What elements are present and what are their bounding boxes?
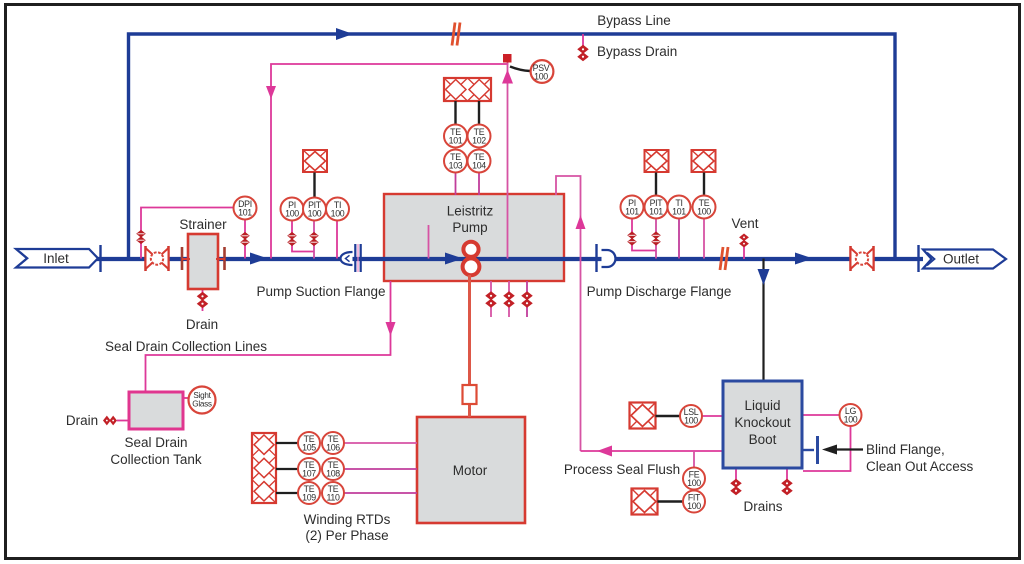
line break symbol discharge [720,247,728,270]
inlet flag [16,249,98,268]
sight glass SG1 [189,387,216,414]
drain symbol strainer [198,293,208,308]
wire PI 100 tap [292,221,314,252]
label Seal Drain Collection Tank [110,435,202,467]
wire boot drain 2 [786,468,788,494]
xbox TE 100 [692,150,716,172]
svg-text:Outlet: Outlet [943,252,979,267]
pump suction flange pair [355,244,360,272]
svg-text:Seal Drain: Seal Drain [124,435,187,450]
instrument PI 101 [621,196,644,219]
wire xbox to PIT 101 [655,173,657,197]
wire xbox to TE 102 [478,101,480,125]
pump P-100 Leistritz body [384,194,564,281]
root valve PIT 100 [310,233,318,246]
wire PSV leader [510,67,530,72]
wire RTD lead TE 110 [344,492,417,494]
arrow seal drain down [386,322,396,336]
wire tank drain stub [117,420,129,422]
svg-text:105: 105 [302,443,316,453]
instrument TI 101 [668,196,691,219]
xbox TE 101 TE 102 thermowell pair [444,78,491,101]
svg-text:Bypass Drain: Bypass Drain [597,44,677,59]
svg-text:100: 100 [308,209,322,219]
svg-text:Process Seal Flush: Process Seal Flush [564,462,680,477]
wire TE 100 tap [703,219,705,259]
wire process seal flush header [581,450,723,452]
svg-text:102: 102 [472,136,486,146]
svg-text:Knockout: Knockout [734,415,791,430]
wire bypass drain stub [582,34,584,47]
strainer flange left [181,247,184,270]
drain symbol casing 3 [522,292,532,307]
arrow seal flush up [576,215,586,229]
wire RTD box to TE 109 [276,492,298,494]
label Strainer [179,217,227,232]
wire RTD lead TE 108 [344,468,417,470]
svg-text:100: 100 [687,501,701,511]
wire strainer drain [202,289,204,311]
wire bypass line [129,34,896,259]
instrument PIT 101 [645,196,668,219]
arrow process seal flush left [597,446,612,457]
flange tick outlet [917,245,919,272]
instrument LSL 100 [680,405,702,427]
label Vent [731,216,758,231]
svg-text:Collection Tank: Collection Tank [110,452,202,467]
svg-text:101: 101 [238,208,252,218]
wire LG 100 lower tap [803,426,851,471]
label Process Seal Flush [564,462,680,477]
seal drain collection tank [129,392,189,429]
label Pump Discharge Flange [587,284,732,299]
instrument TE 106 [322,432,344,454]
drain symbol casing 2 [504,292,514,307]
outlet flag [923,250,1006,269]
wire xbox to PIT 100 [313,173,315,198]
valve V2 outlet isolation [851,246,874,271]
wire DPI downstream tap [244,220,246,259]
svg-text:Glass: Glass [192,400,212,409]
label Drain strainer [186,317,218,332]
svg-text:(2) Per Phase: (2) Per Phase [305,528,388,543]
svg-text:Vent: Vent [731,216,758,231]
instrument FIT 100 [683,491,705,513]
svg-text:104: 104 [472,161,486,171]
flow arrow discharge [795,253,813,265]
svg-text:Pump Discharge Flange: Pump Discharge Flange [587,284,732,299]
arrow PSV riser up [502,70,513,84]
wire TE 103 riser [455,172,457,195]
svg-text:109: 109 [302,493,316,503]
wire LG 100 link [802,414,840,416]
wire xbox to FIT 100 [658,500,684,502]
label Pump Suction Flange [256,284,385,299]
wire RTD box to TE 105 [276,442,298,444]
blind flange leader arrow [822,445,863,455]
wire knockout boot drop [762,259,764,382]
svg-text:Pump: Pump [452,220,487,235]
svg-text:Drain: Drain [66,413,98,428]
label Drain tank [66,413,98,428]
instrument TE 104 [468,150,491,173]
drain symbol boot 2 [782,480,792,495]
motor shaft [468,275,471,417]
wire seal flush loop to pump top [556,176,581,451]
svg-text:Clean Out Access: Clean Out Access [866,459,974,474]
svg-text:Liquid: Liquid [744,398,780,413]
svg-text:100: 100 [697,207,711,217]
svg-text:100: 100 [285,209,299,219]
strainer flange right [223,247,226,270]
svg-text:Boot: Boot [749,432,777,447]
instrument TE 103 [444,150,467,173]
blind flange bar [816,436,819,464]
root valve PI 100 [288,233,296,246]
instrument TE 110 [322,482,344,504]
wire PIT 101 tap [655,219,657,259]
winding RTD junction box stack [252,433,276,503]
drain symbol casing 1 [486,292,496,307]
svg-text:Inlet: Inlet [43,251,69,266]
flange tick inlet [99,245,101,272]
instrument PSV 100 [531,60,554,83]
wire FE 100 stub [693,451,695,467]
drain symbol bypass [578,46,588,61]
motor M1 body [417,417,525,523]
flow arrow down to boot [758,269,770,285]
root valve DPI upstream [137,231,145,244]
instrument PIT 100 [303,198,326,221]
pump suction reducer [341,252,353,265]
instrument LG 100 [840,404,862,426]
svg-text:Motor: Motor [453,463,488,478]
flow arrow into pump [445,253,463,265]
vent symbol [740,234,748,247]
wire xbox to TE 100 [703,173,705,197]
svg-text:106: 106 [326,443,340,453]
wire xbox to LSL 100 [656,415,681,417]
instrument TE 101 [444,125,467,148]
strainer body [182,234,225,289]
wire TI 101 tap [678,219,680,259]
wire TE 104 riser [478,172,480,195]
flow arrow bypass [336,28,353,40]
svg-text:100: 100 [687,478,701,488]
liquid knockout boot [723,381,802,468]
wire boot drain 1 [735,468,737,494]
wire xbox to TE 101 [454,101,456,125]
label Bypass Line [597,13,671,28]
svg-text:Blind Flange,: Blind Flange, [866,442,945,457]
relief valve body [503,54,512,63]
arrow PSV return down [266,86,276,99]
instrument TE 109 [298,482,320,504]
coupling [463,385,477,404]
svg-text:108: 108 [326,469,340,479]
wire PSV relief return [271,61,508,259]
instrument TE 105 [298,432,320,454]
svg-text:100: 100 [331,209,345,219]
pump screw element figure-8 [463,242,480,275]
instrument TE 107 [298,458,320,480]
wire pump casing drain 2 [508,281,510,317]
line break symbol bypass [452,23,460,46]
instrument TE 108 [322,458,344,480]
root valve DPI downstream [241,233,249,246]
label Blind Flange Clean Out Access [866,442,974,474]
instrument TI 100 [326,198,349,221]
svg-text:101: 101 [449,136,463,146]
wire pump casing drain 3 [526,281,528,317]
wire LSL 100 to boot [702,415,723,417]
wire RTD lead TE 106 [344,442,417,444]
xbox PIT 101 [645,150,669,172]
wire pump internal tap [428,225,430,259]
blind flange stub [802,449,814,451]
instrument FE 100 [683,468,705,490]
label Winding RTDs [304,512,391,543]
svg-text:Pump Suction Flange: Pump Suction Flange [256,284,385,299]
root valve PI 101 [628,232,636,245]
svg-text:Drain: Drain [186,317,218,332]
svg-text:100: 100 [844,415,858,425]
wire PSV riser [507,63,509,259]
instrument TE 100 [693,196,716,219]
drain symbol tank [104,416,117,424]
wire TI 100 tap [336,221,338,259]
wire vent stub [743,247,745,259]
flow arrow suction [250,253,268,265]
valve V1 inlet isolation [146,246,169,271]
wire PI 101 tap [632,219,656,251]
label Seal Drain Collection Lines [105,339,267,354]
pump discharge check valve [597,244,616,272]
root valve PIT 101 [652,232,660,245]
svg-text:100: 100 [684,416,698,426]
wire seal drain collection line [146,281,391,392]
svg-text:101: 101 [625,207,639,217]
wire main process line [96,257,923,261]
svg-text:Seal Drain Collection Lines: Seal Drain Collection Lines [105,339,267,354]
instrument DPI 101 [234,197,257,220]
svg-text:Strainer: Strainer [179,217,227,232]
svg-text:Leistritz: Leistritz [447,204,494,219]
xbox PIT 100 [303,150,327,172]
svg-text:Drains: Drains [743,499,782,514]
svg-text:100: 100 [534,72,548,82]
svg-text:101: 101 [672,207,686,217]
wire RTD box to TE 107 [276,468,298,470]
xbox FIT 100 [632,489,658,515]
svg-text:101: 101 [649,207,663,217]
svg-text:Bypass Line: Bypass Line [597,13,671,28]
xbox LSL 100 [630,403,656,429]
wire DPI upstream tap [141,208,233,259]
wire PIT 100 tap [313,221,315,259]
wire pump casing drain 1 [490,281,492,317]
drain symbol boot 1 [731,480,741,495]
svg-text:110: 110 [326,493,340,503]
instrument TE 102 [468,125,491,148]
svg-text:Winding RTDs: Winding RTDs [304,512,391,527]
label Drains [743,499,782,514]
svg-text:107: 107 [302,469,316,479]
svg-text:103: 103 [449,161,463,171]
label Bypass Drain [597,44,677,59]
instrument PI 100 [281,198,304,221]
